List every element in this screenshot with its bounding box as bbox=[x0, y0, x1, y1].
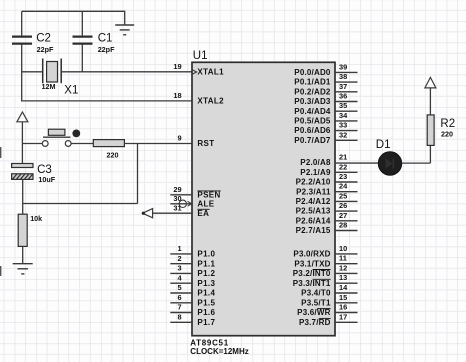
pin label ALE bbox=[197, 199, 214, 208]
wire ground drop bbox=[124, 11, 126, 25]
resistor 10k bbox=[18, 214, 42, 246]
wire RST left segment bbox=[22, 143, 42, 145]
svg-text:P1.7: P1.7 bbox=[197, 318, 215, 327]
pin 9 RST stub bbox=[177, 134, 181, 143]
pin 28 P2.7/A15 stub bbox=[335, 221, 358, 231]
svg-text:14: 14 bbox=[339, 283, 348, 292]
pin label P2.5/A13 bbox=[296, 207, 331, 216]
pin 5 P1.4 stub bbox=[170, 283, 192, 293]
svg-text:12M: 12M bbox=[42, 82, 56, 91]
svg-text:34: 34 bbox=[339, 111, 348, 120]
capacitor C2 bbox=[12, 32, 54, 54]
svg-text:P3.2/INT0: P3.2/INT0 bbox=[293, 269, 331, 278]
wire branch bottom horizontal bbox=[23, 203, 138, 205]
svg-text:P3.6/WR: P3.6/WR bbox=[297, 308, 330, 317]
led D1 bbox=[376, 139, 402, 175]
svg-text:P0.6/AD6: P0.6/AD6 bbox=[294, 126, 331, 135]
svg-text:29: 29 bbox=[173, 185, 181, 194]
pin 39 P0.0/AD0 stub bbox=[335, 62, 358, 72]
edge mark 1 bbox=[0, 147, 2, 158]
pin label P1.0 bbox=[197, 250, 215, 259]
svg-text:P2.1/A9: P2.1/A9 bbox=[300, 168, 331, 177]
svg-text:P3.5/T1: P3.5/T1 bbox=[301, 298, 331, 307]
svg-text:P1.6: P1.6 bbox=[197, 308, 215, 317]
svg-text:AT89C51: AT89C51 bbox=[190, 338, 229, 347]
svg-text:P2.3/A11: P2.3/A11 bbox=[296, 187, 331, 196]
pin 21 P2.0/A8 stub bbox=[339, 153, 347, 162]
pin 36 P0.3/AD3 stub bbox=[335, 92, 358, 102]
svg-text:2: 2 bbox=[177, 254, 181, 263]
pin label P3.3/INT1 bbox=[293, 279, 331, 288]
wire crystal left branch bbox=[21, 71, 43, 73]
pin label P1.3 bbox=[197, 279, 215, 288]
svg-text:23: 23 bbox=[339, 172, 347, 181]
svg-text:RST: RST bbox=[197, 139, 214, 148]
svg-text:18: 18 bbox=[173, 91, 181, 100]
svg-text:7: 7 bbox=[177, 303, 181, 312]
wire corner up to R2 bbox=[429, 145, 431, 163]
svg-text:P1.1: P1.1 bbox=[197, 259, 215, 268]
svg-text:P0.4/AD4: P0.4/AD4 bbox=[294, 107, 331, 116]
svg-text:PSEN: PSEN bbox=[197, 190, 220, 199]
capacitor C1 bbox=[73, 32, 116, 54]
svg-text:P0.2/AD2: P0.2/AD2 bbox=[294, 87, 331, 96]
pin label P0.3/AD3 bbox=[294, 97, 331, 106]
pin 32 P0.7/AD7 stub bbox=[335, 130, 358, 140]
svg-text:3: 3 bbox=[177, 264, 181, 273]
svg-text:P0.1/AD1: P0.1/AD1 bbox=[294, 78, 331, 87]
pin 10 P3.0/RXD stub bbox=[335, 244, 358, 254]
wire RST branch down bbox=[137, 144, 139, 204]
svg-text:25: 25 bbox=[339, 191, 347, 200]
pin label P2.3/A11 bbox=[296, 187, 331, 196]
pin label XTAL2 bbox=[197, 97, 224, 106]
pin 3 P1.2 stub bbox=[170, 264, 192, 274]
svg-text:D1: D1 bbox=[376, 139, 391, 151]
pin 31 EA stub bbox=[142, 203, 192, 217]
svg-text:P0.7/AD7: P0.7/AD7 bbox=[294, 136, 331, 145]
pin label P1.1 bbox=[197, 259, 215, 268]
pin 11 P3.1/TXD stub bbox=[335, 254, 358, 264]
svg-text:P2.5/A13: P2.5/A13 bbox=[296, 207, 331, 216]
pin 17 P3.7/RD stub bbox=[335, 312, 358, 322]
svg-text:P2.0/A8: P2.0/A8 bbox=[300, 158, 331, 167]
svg-text:P1.5: P1.5 bbox=[197, 298, 215, 307]
pin 34 P0.5/AD5 stub bbox=[335, 111, 358, 121]
resistor 220 (reset) bbox=[93, 140, 124, 160]
svg-text:C3: C3 bbox=[37, 164, 52, 176]
svg-text:P3.7/RD: P3.7/RD bbox=[299, 318, 331, 327]
svg-text:220: 220 bbox=[441, 129, 453, 138]
wire XTAL1 line to chip pin 19 bbox=[61, 71, 192, 73]
svg-text:10uF: 10uF bbox=[38, 175, 55, 184]
svg-text:27: 27 bbox=[339, 211, 347, 220]
pin label P1.2 bbox=[197, 269, 215, 278]
svg-text:CLOCK=12MHz: CLOCK=12MHz bbox=[190, 347, 248, 356]
ground top-right bbox=[115, 25, 134, 35]
svg-text:P0.5/AD5: P0.5/AD5 bbox=[294, 117, 331, 126]
pin 25 P2.4/A12 stub bbox=[335, 191, 358, 201]
svg-text:R2: R2 bbox=[440, 118, 455, 130]
pin label P1.4 bbox=[197, 289, 215, 298]
svg-text:P2.7/A15: P2.7/A15 bbox=[296, 226, 331, 235]
svg-text:17: 17 bbox=[339, 312, 347, 321]
pin 23 P2.2/A10 stub bbox=[335, 172, 358, 182]
svg-text:P3.1/TXD: P3.1/TXD bbox=[294, 259, 330, 268]
svg-text:XTAL1: XTAL1 bbox=[197, 68, 224, 77]
pin label P0.5/AD5 bbox=[294, 117, 331, 126]
svg-text:P1.3: P1.3 bbox=[197, 279, 215, 288]
svg-text:19: 19 bbox=[173, 62, 181, 71]
pin 29 PSEN stub bbox=[170, 185, 192, 195]
pin 30 ALE stub bbox=[170, 194, 192, 208]
svg-text:1: 1 bbox=[177, 244, 181, 253]
svg-text:9: 9 bbox=[177, 134, 181, 143]
pin label XTAL1 bbox=[197, 68, 224, 77]
svg-text:P0.3/AD3: P0.3/AD3 bbox=[294, 97, 331, 106]
pin 7 P1.6 stub bbox=[170, 303, 192, 313]
pin 12 P3.2/INT0 stub bbox=[335, 263, 358, 273]
wire top rail bbox=[22, 10, 125, 12]
svg-text:P1.4: P1.4 bbox=[197, 289, 215, 298]
svg-text:21: 21 bbox=[339, 153, 347, 162]
svg-text:22pF: 22pF bbox=[37, 45, 54, 54]
pin label P1.5 bbox=[197, 298, 215, 307]
wire resistor to RST pin 9 bbox=[124, 143, 192, 145]
pin label P2.0/A8 bbox=[300, 158, 331, 167]
edge mark 2 bbox=[0, 266, 2, 276]
wire P2.0 pin 21 to LED bbox=[335, 162, 379, 164]
pin 15 P3.5/T1 stub bbox=[335, 293, 358, 303]
wire 10k to ground bbox=[22, 246, 24, 263]
pin label P3.2/INT0 bbox=[293, 269, 331, 278]
svg-text:U1: U1 bbox=[193, 50, 208, 62]
pin label P1.6 bbox=[197, 308, 215, 317]
wire C3 bottom lead bbox=[22, 180, 24, 215]
pin label P2.1/A9 bbox=[300, 168, 331, 177]
svg-text:X1: X1 bbox=[64, 85, 78, 97]
pin 6 P1.5 stub bbox=[170, 293, 192, 303]
svg-text:28: 28 bbox=[339, 221, 347, 230]
pin 26 P2.5/A13 stub bbox=[335, 201, 358, 211]
pin 1 P1.0 stub bbox=[170, 244, 192, 254]
svg-text:P2.4/A12: P2.4/A12 bbox=[296, 197, 331, 206]
pin label P3.7/RD bbox=[299, 318, 331, 327]
pin label EA bbox=[197, 209, 209, 218]
pin 8 P1.7 stub bbox=[170, 313, 192, 323]
svg-text:24: 24 bbox=[339, 182, 348, 191]
pin label RST bbox=[197, 139, 214, 148]
svg-text:P2.2/A10: P2.2/A10 bbox=[296, 178, 331, 187]
pin label P0.0/AD0 bbox=[294, 68, 331, 77]
svg-text:15: 15 bbox=[339, 293, 347, 302]
pin 2 P1.1 stub bbox=[170, 254, 192, 264]
svg-text:220: 220 bbox=[107, 151, 119, 160]
svg-text:XTAL2: XTAL2 bbox=[197, 97, 224, 106]
pin label P0.1/AD1 bbox=[294, 78, 331, 87]
pin 4 P1.3 stub bbox=[170, 273, 192, 283]
svg-text:13: 13 bbox=[339, 273, 347, 282]
pin 24 P2.3/A11 stub bbox=[335, 182, 358, 192]
wire XTAL2 bottom rail to chip pin 18 bbox=[21, 100, 192, 102]
pin 22 P2.1/A9 stub bbox=[335, 162, 358, 172]
svg-text:10: 10 bbox=[339, 244, 347, 253]
svg-text:6: 6 bbox=[177, 293, 181, 302]
crystal X1 bbox=[42, 59, 79, 97]
pin label P3.0/RXD bbox=[293, 250, 330, 259]
svg-text:16: 16 bbox=[339, 303, 347, 312]
svg-text:8: 8 bbox=[177, 313, 181, 322]
svg-text:37: 37 bbox=[339, 82, 347, 91]
svg-text:ALE: ALE bbox=[197, 199, 214, 208]
push button bbox=[42, 129, 80, 146]
svg-text:12: 12 bbox=[339, 263, 347, 272]
pin label P2.6/A14 bbox=[296, 216, 331, 225]
svg-text:EA: EA bbox=[197, 209, 209, 218]
svg-text:39: 39 bbox=[339, 62, 347, 71]
svg-text:33: 33 bbox=[339, 121, 347, 130]
svg-text:P3.0/RXD: P3.0/RXD bbox=[293, 250, 330, 259]
power vcc arrow left bbox=[17, 112, 28, 122]
pin 18 XTAL2 stub bbox=[173, 91, 181, 100]
pin label P2.4/A12 bbox=[296, 197, 331, 206]
pin 13 P3.3/INT1 stub bbox=[335, 273, 358, 283]
pin label P2.2/A10 bbox=[296, 178, 331, 187]
ground bottom-left bbox=[13, 264, 33, 274]
pin 37 P0.2/AD2 stub bbox=[335, 82, 358, 92]
svg-text:31: 31 bbox=[173, 203, 181, 212]
pin 19 XTAL1 stub bbox=[173, 62, 196, 74]
pin 14 P3.4/T0 stub bbox=[335, 283, 358, 293]
svg-text:P0.0/AD0: P0.0/AD0 bbox=[294, 68, 331, 77]
svg-text:38: 38 bbox=[339, 72, 347, 81]
svg-text:C1: C1 bbox=[98, 32, 113, 44]
svg-text:P1.0: P1.0 bbox=[197, 250, 215, 259]
pin label P0.6/AD6 bbox=[294, 126, 331, 135]
svg-text:C2: C2 bbox=[36, 32, 51, 44]
pin label P0.7/AD7 bbox=[294, 136, 331, 145]
pin 35 P0.4/AD4 stub bbox=[335, 101, 358, 111]
wire button to resistor bbox=[71, 143, 93, 145]
pin 27 P2.6/A14 stub bbox=[335, 211, 358, 221]
wire C2 bottom lead down to XTAL2 rail bbox=[21, 45, 23, 102]
wire C1 top lead bbox=[81, 11, 83, 36]
wire C1 bottom lead down to XTAL1 line bbox=[81, 45, 83, 72]
pin label P0.4/AD4 bbox=[294, 107, 331, 116]
svg-text:22pF: 22pF bbox=[98, 45, 115, 54]
svg-text:5: 5 bbox=[177, 283, 181, 292]
pin label PSEN bbox=[197, 190, 220, 199]
pin label P3.1/TXD bbox=[294, 259, 330, 268]
pin label P1.7 bbox=[197, 318, 215, 327]
wire LED to R2 corner bbox=[402, 162, 431, 164]
pin label P0.2/AD2 bbox=[294, 87, 331, 96]
op chip U1 body bbox=[192, 50, 335, 336]
pin label P3.6/WR bbox=[297, 308, 330, 317]
svg-text:P2.6/A14: P2.6/A14 bbox=[296, 216, 331, 225]
wire R2 top lead bbox=[429, 88, 431, 115]
wire vcc drop to C3 bbox=[21, 122, 23, 164]
svg-text:35: 35 bbox=[339, 101, 347, 110]
wire C2 top lead bbox=[21, 11, 23, 36]
capacitor C3 bbox=[12, 164, 56, 185]
pin 38 P0.1/AD1 stub bbox=[335, 72, 358, 82]
svg-text:10k: 10k bbox=[30, 214, 42, 223]
power vcc arrow right bbox=[425, 77, 436, 88]
svg-text:P3.4/T0: P3.4/T0 bbox=[301, 289, 331, 298]
svg-text:32: 32 bbox=[339, 130, 347, 139]
pin label P2.7/A15 bbox=[296, 226, 331, 235]
pin label P3.4/T0 bbox=[301, 289, 331, 298]
resistor R2 bbox=[427, 115, 455, 145]
svg-text:P3.3/INT1: P3.3/INT1 bbox=[293, 279, 331, 288]
svg-text:26: 26 bbox=[339, 201, 347, 210]
pin label P3.5/T1 bbox=[301, 298, 331, 307]
pin 16 P3.6/WR stub bbox=[335, 303, 358, 313]
svg-text:36: 36 bbox=[339, 92, 347, 101]
svg-text:P1.2: P1.2 bbox=[197, 269, 215, 278]
svg-text:11: 11 bbox=[339, 254, 347, 263]
pin 33 P0.6/AD6 stub bbox=[335, 121, 358, 131]
